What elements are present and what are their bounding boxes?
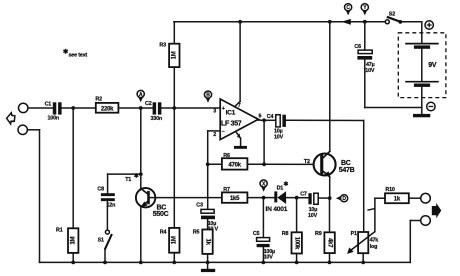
svg-text:P1: P1 — [351, 231, 357, 237]
svg-text:100k: 100k — [294, 237, 300, 250]
svg-text:+: + — [222, 106, 225, 112]
wire P1 wiper up to R10 row — [367, 198, 385, 232]
svg-text:1k: 1k — [205, 239, 211, 246]
svg-text:C2: C2 — [145, 101, 152, 107]
battery inter-cell wires — [421, 49, 423, 114]
input arrow symbol — [7, 113, 15, 124]
wire R8 junction down to R8 — [296, 198, 298, 233]
wire C4 to P1 feed corner — [286, 120, 364, 232]
wire R4 to ground rail — [172, 253, 176, 265]
svg-text:547B: 547B — [339, 167, 355, 174]
output arrow symbol — [432, 203, 442, 218]
wire C8 top to T1 collector junction — [108, 172, 143, 193]
wire T2 emitter down to junction — [329, 177, 331, 199]
output jack lower — [421, 216, 431, 226]
svg-text:–: – — [222, 129, 225, 135]
svg-text:6: 6 — [259, 114, 262, 120]
resistor R1 1M — [56, 227, 78, 253]
svg-text:A: A — [139, 92, 143, 98]
resistor R7 1k5 — [222, 187, 248, 203]
resistor R10 1k — [385, 187, 409, 203]
svg-text:R6: R6 — [223, 153, 230, 159]
capacitor C8 12n — [97, 187, 115, 209]
svg-text:C1: C1 — [45, 102, 52, 108]
wire R5 to ground rail — [206, 254, 210, 264]
svg-text:10V: 10V — [274, 134, 284, 140]
capacitor C6 47u — [354, 44, 374, 74]
capacitor C5 100u — [253, 231, 275, 260]
wire Y junction down to C6 — [364, 22, 366, 50]
svg-text:R1: R1 — [56, 227, 63, 233]
capacitor C2 330n — [145, 101, 162, 122]
arrow on rail — [341, 19, 350, 25]
svg-text:470k: 470k — [228, 163, 241, 169]
minus terminal symbol — [427, 102, 435, 110]
wire output node to T2 base — [264, 163, 314, 165]
svg-text:1M: 1M — [171, 51, 177, 59]
wire P1 feed column handled above; P1 potentiometer 47k log — [347, 231, 378, 254]
capacitor C1 100n — [45, 102, 62, 122]
svg-text:3: 3 — [213, 109, 216, 115]
wire lower input jack to ground rail — [27, 130, 39, 263]
node Y pin — [361, 4, 368, 16]
svg-text:BC: BC — [341, 160, 351, 167]
svg-text:2: 2 — [213, 132, 216, 138]
op-amp U1 IC1 LF357 triangle — [213, 99, 261, 140]
wire node A down to T1 — [140, 108, 142, 189]
svg-text:1M: 1M — [171, 236, 177, 244]
wire P1 bottom to ground rail — [361, 253, 365, 264]
svg-text:10V: 10V — [308, 213, 318, 219]
wire C1 to R2 — [62, 107, 96, 109]
svg-text:D1: D1 — [277, 185, 284, 191]
wire C8 to S1 — [106, 201, 108, 230]
battery cell 2 — [405, 82, 439, 87]
svg-text:C4: C4 — [267, 114, 274, 120]
battery 9V dashed box — [398, 33, 446, 98]
wire pin3 node down to R4 — [173, 108, 175, 228]
capacitor C3 10u — [196, 203, 218, 233]
wire lower output jack to ground rail — [410, 221, 420, 263]
svg-text:R4: R4 — [160, 229, 167, 235]
ground bar below R5 — [201, 262, 215, 272]
wire upper jack to C1 — [28, 107, 53, 109]
svg-text:T2: T2 — [304, 159, 310, 165]
wire R2 to C2 — [118, 107, 152, 109]
wire T2 collector to top rail — [328, 20, 332, 151]
svg-text:C6: C6 — [354, 44, 361, 50]
svg-text:4: 4 — [237, 134, 240, 140]
ground bar at pin 4 — [234, 146, 247, 149]
svg-text:IC1: IC1 — [226, 110, 236, 117]
wire D1 to C7 — [286, 196, 308, 200]
ground rail — [40, 261, 411, 263]
resistor R4 1M — [160, 228, 180, 253]
wire node X down to C5 — [262, 198, 264, 238]
svg-text:see text: see text — [69, 53, 88, 59]
plus terminal symbol — [425, 21, 433, 29]
svg-text:9V: 9V — [428, 62, 437, 69]
svg-text:220k: 220k — [101, 106, 114, 112]
transistor Q1 T1 BC550C — [125, 173, 168, 218]
node Y junction dot — [363, 20, 367, 24]
wire C2 to op-amp pin 3 — [161, 107, 220, 109]
node junction C1/R1/R2 — [71, 106, 75, 110]
svg-text:C: C — [346, 5, 350, 11]
wire pin2 node down to C3 — [207, 164, 209, 209]
wire R1 to ground rail — [71, 253, 75, 264]
node B pin — [204, 91, 211, 103]
svg-text:R9: R9 — [315, 231, 322, 237]
svg-text:T1: T1 — [125, 177, 131, 183]
svg-text:1k5: 1k5 — [230, 196, 240, 202]
wire top rail corner down to R3 — [173, 22, 175, 44]
resistor R5 1k — [193, 229, 213, 254]
svg-text:R7: R7 — [223, 187, 230, 193]
wire pin6 down to feedback row — [263, 120, 265, 164]
wire op-amp pin 6 output — [257, 118, 266, 122]
diode D1 1N4001 — [266, 181, 288, 213]
svg-text:S2: S2 — [389, 11, 395, 17]
svg-text:10V: 10V — [264, 254, 274, 260]
see text note — [63, 49, 87, 59]
input jack J-lower — [18, 125, 27, 134]
resistor R2 220k — [95, 97, 118, 113]
battery cell 1 — [405, 44, 439, 49]
svg-text:IN 4001: IN 4001 — [266, 206, 288, 213]
top supply rail — [174, 22, 422, 44]
ground bar below battery — [413, 114, 430, 117]
capacitor C4 10u — [267, 114, 286, 140]
op-amp pin 7 supply wire — [235, 20, 242, 109]
svg-text:4k7: 4k7 — [327, 238, 333, 248]
wire C3 to R5 — [207, 219, 209, 229]
resistor R3 1M — [159, 43, 179, 67]
svg-text:R10: R10 — [385, 187, 394, 193]
svg-text:330n: 330n — [151, 116, 163, 122]
wire R8 to ground rail — [295, 254, 299, 265]
svg-text:R8: R8 — [282, 231, 289, 237]
svg-text:C7: C7 — [300, 192, 307, 198]
wire pin6 to C4 — [264, 119, 276, 121]
svg-text:7: 7 — [238, 103, 241, 109]
svg-text:100n: 100n — [48, 116, 60, 122]
wire C6 to battery minus — [365, 60, 422, 108]
svg-text:R5: R5 — [193, 229, 200, 235]
input jack J-upper — [19, 103, 28, 112]
wire R3 to pin3 node — [173, 67, 175, 108]
wire C7 to T2 emitter junction — [318, 196, 331, 200]
capacitor C7 10u — [300, 192, 318, 219]
wire R9 to ground rail — [328, 253, 332, 264]
node A junction dot — [139, 106, 143, 110]
wire T1 emitter to ground rail — [139, 207, 143, 264]
svg-text:B: B — [206, 92, 210, 98]
node C pin — [345, 4, 352, 16]
svg-text:1M: 1M — [70, 236, 76, 244]
svg-text:R3: R3 — [159, 43, 166, 49]
wire T2 emitter junction to R9 — [329, 198, 331, 232]
node A pin — [137, 90, 144, 102]
wire R6 to output node column — [247, 162, 266, 166]
switch S2 — [385, 11, 402, 23]
wire C5 to ground rail — [262, 247, 266, 264]
op-amp pin 4 wire — [236, 131, 241, 146]
svg-text:C5: C5 — [253, 231, 260, 237]
wire R7 to node X — [247, 196, 274, 200]
svg-text:47k: 47k — [370, 237, 379, 243]
svg-text:LF 357: LF 357 — [221, 121, 242, 128]
node D pin — [336, 195, 348, 202]
svg-text:1k: 1k — [394, 197, 401, 203]
resistor R8 100k — [282, 231, 302, 254]
resistor R6 470k — [222, 153, 248, 170]
output jack upper — [421, 193, 431, 203]
battery 9V label — [428, 62, 437, 69]
switch S1 — [98, 230, 112, 264]
svg-text:C8: C8 — [97, 187, 104, 193]
resistor R9 4k7 — [315, 231, 335, 253]
node X pin — [260, 180, 267, 192]
wire R10 to output jack — [409, 197, 421, 199]
svg-text:C3: C3 — [196, 203, 203, 209]
node junction R3/R4/pin3 — [172, 106, 176, 110]
wire op-amp pin 2 to feedback node — [206, 131, 220, 166]
svg-text:R2: R2 — [95, 97, 102, 103]
svg-text:S1: S1 — [98, 238, 104, 244]
wire junction down to R1 — [72, 108, 74, 228]
svg-text:log: log — [370, 244, 377, 250]
svg-text:10V: 10V — [365, 68, 375, 74]
svg-text:D: D — [342, 196, 346, 202]
svg-text:550C: 550C — [153, 211, 169, 218]
wire pin2 node to R6 — [208, 163, 222, 165]
transistor Q2 T2 BC547B — [304, 151, 355, 177]
wire T1 base to R7 — [155, 197, 222, 199]
